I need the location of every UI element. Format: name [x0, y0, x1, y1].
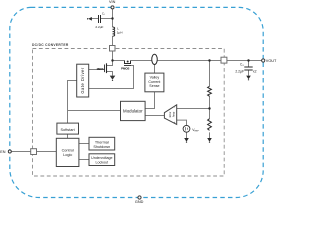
svg-text:Softstart: Softstart	[61, 128, 76, 132]
svg-text:DC/DC CONVERTER: DC/DC CONVERTER	[32, 43, 69, 47]
svg-text:VREF: VREF	[192, 128, 199, 133]
svg-text:CI: CI	[102, 11, 105, 16]
svg-text:-: -	[174, 106, 175, 110]
svg-text:Thermal: Thermal	[95, 140, 109, 144]
svg-text:GND: GND	[135, 200, 144, 204]
svg-text:Current: Current	[148, 80, 160, 84]
svg-text:Lockout: Lockout	[96, 160, 109, 164]
svg-text:CO: CO	[240, 62, 244, 67]
svg-text:Logic: Logic	[63, 153, 72, 157]
svg-text:EN: EN	[0, 150, 6, 154]
svg-text:PMOS: PMOS	[121, 66, 129, 70]
svg-text:Modulator: Modulator	[123, 109, 143, 114]
svg-text:VIN: VIN	[109, 0, 116, 4]
svg-text:Control: Control	[62, 149, 74, 153]
svg-text:VOUT: VOUT	[266, 59, 277, 63]
svg-text:NMOS: NMOS	[97, 67, 104, 71]
svg-text:2.2µF: 2.2µF	[235, 69, 244, 73]
svg-text:Valley: Valley	[150, 75, 160, 79]
svg-text:x2: x2	[253, 69, 257, 73]
svg-text:Amp: Amp	[171, 111, 175, 117]
svg-text:+: +	[174, 120, 176, 124]
svg-text:Sense: Sense	[149, 84, 159, 88]
svg-text:Gate Driver: Gate Driver	[80, 67, 85, 94]
svg-text:1µH: 1µH	[117, 31, 123, 35]
svg-text:2.2µF: 2.2µF	[95, 25, 103, 29]
svg-text:Shutdown: Shutdown	[93, 145, 110, 149]
